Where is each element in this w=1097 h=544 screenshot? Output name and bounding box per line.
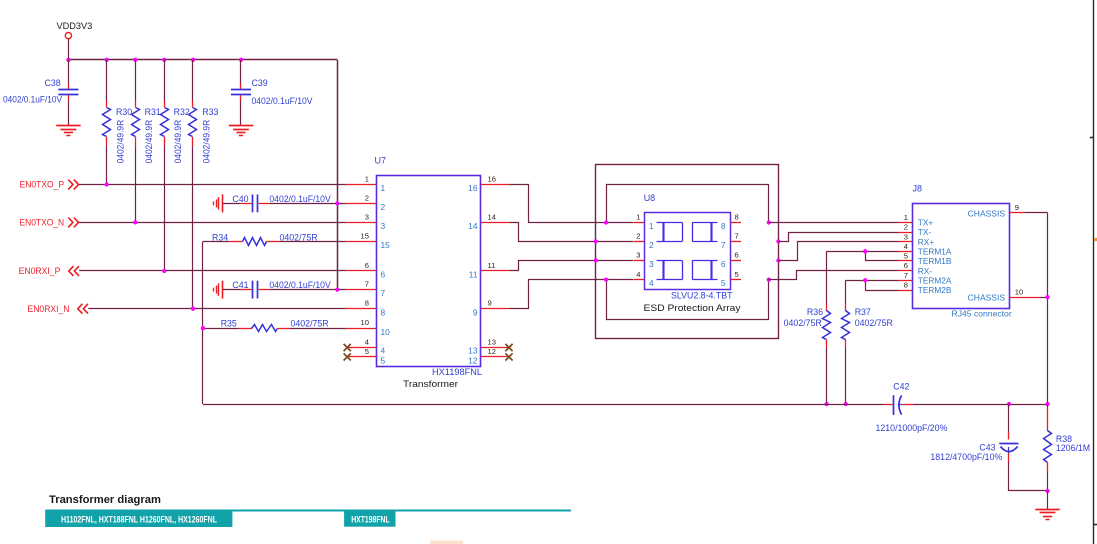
resistor R30 bbox=[106, 60, 108, 101]
svg-text:8: 8 bbox=[721, 221, 726, 231]
svg-text:1206/1M: 1206/1M bbox=[1056, 443, 1090, 453]
svg-text:13: 13 bbox=[468, 346, 478, 356]
svg-text:9: 9 bbox=[473, 307, 478, 317]
node C40 / bus riser bbox=[335, 201, 339, 205]
ESD array U8 bbox=[645, 213, 731, 290]
svg-text:Transformer: Transformer bbox=[403, 378, 458, 389]
node TERM1A/TERM1B bbox=[863, 249, 867, 253]
wire bus riser bbox=[337, 60, 339, 290]
svg-text:0402/75R: 0402/75R bbox=[855, 318, 893, 328]
svg-text:R32: R32 bbox=[174, 107, 190, 117]
svg-text:5: 5 bbox=[381, 355, 386, 365]
svg-text:RX+: RX+ bbox=[918, 237, 935, 247]
svg-text:7: 7 bbox=[904, 271, 908, 280]
ground for C39 bbox=[229, 125, 253, 127]
svg-text:8: 8 bbox=[365, 299, 369, 308]
resistor R35 bbox=[203, 328, 239, 330]
svg-text:R34: R34 bbox=[212, 232, 228, 242]
svg-text:9: 9 bbox=[488, 299, 492, 308]
svg-text:TX+: TX+ bbox=[918, 218, 934, 228]
wire bottom rail bbox=[203, 404, 884, 406]
capacitor C40 bbox=[223, 203, 241, 205]
svg-text:1: 1 bbox=[365, 175, 369, 184]
node ground junction bbox=[1045, 489, 1049, 493]
svg-text:2: 2 bbox=[381, 202, 386, 212]
svg-text:EN0TXO_P: EN0TXO_P bbox=[20, 180, 65, 190]
wire TERM1B hook bbox=[866, 252, 899, 261]
svg-text:6: 6 bbox=[904, 261, 908, 270]
svg-text:8: 8 bbox=[381, 307, 386, 317]
svg-text:SLVU2.8-4.TBT: SLVU2.8-4.TBT bbox=[671, 290, 733, 300]
wire J8 pin10 chassis bbox=[1010, 297, 1041, 299]
wire EN0TXO_P to U7 pin 1 bbox=[79, 184, 346, 186]
svg-text:R31: R31 bbox=[145, 107, 161, 117]
wire chassis riser bbox=[1047, 213, 1049, 404]
svg-text:TX-: TX- bbox=[918, 227, 932, 237]
svg-text:J8: J8 bbox=[913, 184, 923, 194]
svg-text:11: 11 bbox=[488, 261, 496, 270]
U7 pins 13 12 no-connect bbox=[481, 347, 509, 349]
wire RX+ to J8 pin3 bbox=[779, 242, 899, 261]
wire RX- to J8 pin6 bbox=[769, 271, 899, 280]
node bus junctions bbox=[66, 58, 70, 62]
svg-text:TERM2B: TERM2B bbox=[918, 285, 952, 295]
wire VDD3V3 bus bbox=[68, 59, 337, 61]
svg-text:0402/75R: 0402/75R bbox=[280, 232, 318, 242]
svg-text:14: 14 bbox=[488, 212, 496, 221]
resistor R37 bbox=[845, 280, 847, 303]
svg-text:14: 14 bbox=[468, 221, 478, 231]
svg-text:12: 12 bbox=[488, 347, 496, 356]
wire ground stub bbox=[1047, 491, 1049, 509]
svg-text:10: 10 bbox=[361, 318, 369, 327]
svg-text:7: 7 bbox=[721, 240, 726, 250]
svg-text:U8: U8 bbox=[644, 193, 656, 203]
svg-text:16: 16 bbox=[488, 175, 496, 184]
svg-text:C39: C39 bbox=[252, 78, 268, 88]
node R38 top bbox=[1045, 402, 1049, 406]
U8 diode cells bbox=[657, 222, 683, 224]
svg-text:5: 5 bbox=[904, 252, 908, 261]
svg-text:16: 16 bbox=[468, 183, 478, 193]
svg-text:2: 2 bbox=[904, 223, 908, 232]
node EN0TXO_P / R30 bbox=[105, 182, 109, 186]
svg-text:0402/0.1uF/10V: 0402/0.1uF/10V bbox=[252, 96, 313, 106]
svg-text:CHASSIS: CHASSIS bbox=[968, 293, 1006, 303]
wire EN0TXO_N to U7 pin 3 bbox=[79, 222, 346, 224]
node R37 / rail bbox=[844, 402, 848, 406]
ground for C40 bbox=[222, 194, 224, 212]
svg-text:12: 12 bbox=[468, 355, 478, 365]
svg-text:0402/75R: 0402/75R bbox=[784, 318, 822, 328]
node EN0RXI_P / R32 bbox=[162, 269, 166, 273]
svg-text:0402/49.9R: 0402/49.9R bbox=[173, 120, 183, 164]
node C43 branch bbox=[1007, 402, 1011, 406]
resistor R31 bbox=[135, 60, 137, 101]
svg-text:0402/49.9R: 0402/49.9R bbox=[115, 120, 125, 164]
transformer U7 bbox=[377, 176, 481, 367]
legend box HXT198FNL bbox=[344, 510, 395, 527]
svg-text:7: 7 bbox=[735, 232, 739, 241]
wire U7 pin11 to U8 pin3 bbox=[510, 261, 634, 271]
svg-text:4: 4 bbox=[904, 242, 908, 251]
svg-text:VDD3V3: VDD3V3 bbox=[57, 21, 93, 31]
svg-text:EN0RXI_N: EN0RXI_N bbox=[28, 304, 70, 314]
capacitor C39 bbox=[240, 60, 242, 83]
capacitor C38 bbox=[68, 60, 70, 83]
svg-text:1: 1 bbox=[904, 213, 908, 222]
svg-text:5: 5 bbox=[365, 347, 369, 356]
svg-text:4: 4 bbox=[649, 278, 654, 288]
svg-text:TERM2A: TERM2A bbox=[918, 276, 952, 286]
svg-text:CHASSIS: CHASSIS bbox=[968, 208, 1006, 218]
svg-text:0402/75R: 0402/75R bbox=[291, 319, 329, 329]
wire U8 outer ring bbox=[596, 165, 779, 339]
svg-text:6: 6 bbox=[735, 251, 739, 260]
svg-text:ESD Protection Array: ESD Protection Array bbox=[644, 303, 741, 313]
svg-text:EN0RXI_P: EN0RXI_P bbox=[19, 266, 61, 276]
svg-text:4: 4 bbox=[365, 338, 369, 347]
svg-text:RX-: RX- bbox=[918, 266, 933, 276]
svg-text:C40: C40 bbox=[232, 194, 248, 204]
node R35 / R34 riser bbox=[201, 326, 205, 330]
legend box H1102FNL bbox=[45, 510, 232, 527]
svg-text:6: 6 bbox=[365, 261, 369, 270]
svg-text:2: 2 bbox=[365, 193, 369, 202]
svg-text:6: 6 bbox=[721, 259, 726, 269]
resistor R34 bbox=[203, 241, 229, 243]
svg-text:9: 9 bbox=[1015, 203, 1019, 212]
node U8 loop junctions bbox=[604, 220, 608, 224]
wire TERM1A bbox=[827, 251, 899, 253]
wire U7 pin14 to U8 pin2 bbox=[510, 223, 634, 242]
wire TX- to J8 pin2 bbox=[779, 233, 899, 242]
wire U8 top loop bbox=[607, 185, 769, 223]
svg-text:2: 2 bbox=[649, 240, 654, 250]
svg-text:1812/4700pF/10%: 1812/4700pF/10% bbox=[930, 452, 1002, 462]
svg-text:R36: R36 bbox=[807, 307, 823, 317]
page border right bbox=[1093, 0, 1095, 544]
svg-text:8: 8 bbox=[735, 213, 739, 222]
wire R34 left riser bbox=[202, 242, 204, 405]
svg-text:0402/0.1uF/10V: 0402/0.1uF/10V bbox=[269, 280, 330, 290]
wire TERM2A bbox=[846, 280, 899, 282]
svg-text:0402/49.9R: 0402/49.9R bbox=[144, 120, 154, 164]
svg-text:10: 10 bbox=[1015, 287, 1023, 296]
svg-text:C41: C41 bbox=[232, 280, 248, 290]
node TERM2A/TERM2B bbox=[863, 278, 867, 282]
svg-text:3: 3 bbox=[649, 259, 654, 269]
svg-text:4: 4 bbox=[381, 346, 386, 356]
node EN0TXO_N / R31 bbox=[133, 220, 137, 224]
svg-text:C38: C38 bbox=[45, 78, 61, 88]
resistor R38 bbox=[1047, 404, 1049, 407]
svg-text:1: 1 bbox=[636, 213, 640, 222]
ground for R38 C43 bbox=[1035, 509, 1059, 511]
svg-text:EN0TXO_N: EN0TXO_N bbox=[20, 218, 65, 228]
svg-text:3: 3 bbox=[636, 251, 640, 260]
svg-text:0402/49.9R: 0402/49.9R bbox=[202, 120, 212, 164]
svg-text:4: 4 bbox=[636, 270, 640, 279]
svg-text:3: 3 bbox=[904, 232, 908, 241]
svg-text:7: 7 bbox=[381, 288, 386, 298]
svg-text:3: 3 bbox=[381, 221, 386, 231]
svg-text:Transformer diagram: Transformer diagram bbox=[49, 494, 161, 506]
node EN0RXI_N / R33 bbox=[191, 307, 195, 311]
svg-text:R33: R33 bbox=[202, 107, 218, 117]
bottom edge artifact bbox=[430, 541, 463, 544]
node R36 / rail bbox=[824, 402, 828, 406]
wire C43 to ground bbox=[1009, 490, 1048, 492]
svg-text:5: 5 bbox=[721, 278, 726, 288]
wire U7 pin9 to U8 pin4 bbox=[510, 280, 634, 309]
svg-text:C42: C42 bbox=[893, 381, 909, 391]
ground for C41 bbox=[222, 281, 224, 299]
svg-text:RJ45 connector: RJ45 connector bbox=[952, 308, 1012, 318]
node C41 / bus riser bbox=[335, 287, 339, 291]
wire U7 pin16 to U8 pin1 bbox=[510, 185, 634, 223]
svg-text:0402/0.1uF/10V: 0402/0.1uF/10V bbox=[3, 94, 62, 104]
node pin10 / chassis riser bbox=[1045, 295, 1049, 299]
svg-text:0402/0.1uF/10V: 0402/0.1uF/10V bbox=[269, 194, 330, 204]
resistor R33 bbox=[192, 60, 194, 101]
svg-text:R37: R37 bbox=[855, 307, 871, 317]
resistor R36 bbox=[826, 251, 828, 303]
wire U8 pin8 to J8 pin1 bbox=[769, 222, 899, 224]
svg-text:7: 7 bbox=[365, 280, 369, 289]
svg-text:1: 1 bbox=[381, 183, 386, 193]
svg-text:3: 3 bbox=[365, 212, 369, 221]
svg-text:HX1198FNL: HX1198FNL bbox=[432, 367, 482, 377]
svg-text:15: 15 bbox=[381, 240, 391, 250]
svg-text:HXT198FNL: HXT198FNL bbox=[351, 514, 390, 524]
legend rule bbox=[46, 510, 571, 512]
wire U8 bottom loop bbox=[607, 280, 769, 320]
svg-text:U7: U7 bbox=[375, 156, 387, 166]
svg-text:R35: R35 bbox=[221, 319, 237, 329]
ground for C38 bbox=[56, 125, 80, 127]
connector J8 bbox=[913, 204, 1010, 309]
svg-text:13: 13 bbox=[488, 338, 496, 347]
svg-text:1: 1 bbox=[649, 221, 654, 231]
capacitor C41 bbox=[223, 289, 241, 291]
svg-text:6: 6 bbox=[381, 270, 386, 280]
svg-text:10: 10 bbox=[381, 327, 391, 337]
wire EN0RXI_N to U7 pin 8 bbox=[88, 308, 346, 310]
svg-text:11: 11 bbox=[469, 270, 478, 280]
U8 right pin stubs bbox=[731, 222, 742, 224]
svg-text:R30: R30 bbox=[116, 107, 132, 117]
U7 pins 4 5 no-connect bbox=[347, 347, 376, 349]
svg-text:1210/1000pF/20%: 1210/1000pF/20% bbox=[876, 423, 948, 433]
capacitor C43 bbox=[1008, 404, 1010, 432]
svg-text:8: 8 bbox=[904, 281, 908, 290]
wire EN0RXI_P to U7 pin 6 bbox=[79, 270, 346, 272]
svg-text:TERM1B: TERM1B bbox=[918, 256, 952, 266]
svg-text:H1102FNL, HXT188FNL H1260FNL,: H1102FNL, HXT188FNL H1260FNL, HX1260FNL bbox=[61, 514, 217, 524]
wire J8 pin9 chassis bbox=[1010, 212, 1025, 214]
svg-text:TERM1A: TERM1A bbox=[918, 247, 952, 257]
resistor R32 bbox=[164, 60, 166, 101]
wire TERM2B hook bbox=[866, 281, 899, 291]
svg-text:2: 2 bbox=[636, 232, 640, 241]
capacitor C42 bbox=[893, 395, 895, 415]
svg-text:15: 15 bbox=[361, 232, 369, 241]
svg-text:5: 5 bbox=[735, 270, 739, 279]
U7 right pin stubs bbox=[481, 184, 510, 186]
